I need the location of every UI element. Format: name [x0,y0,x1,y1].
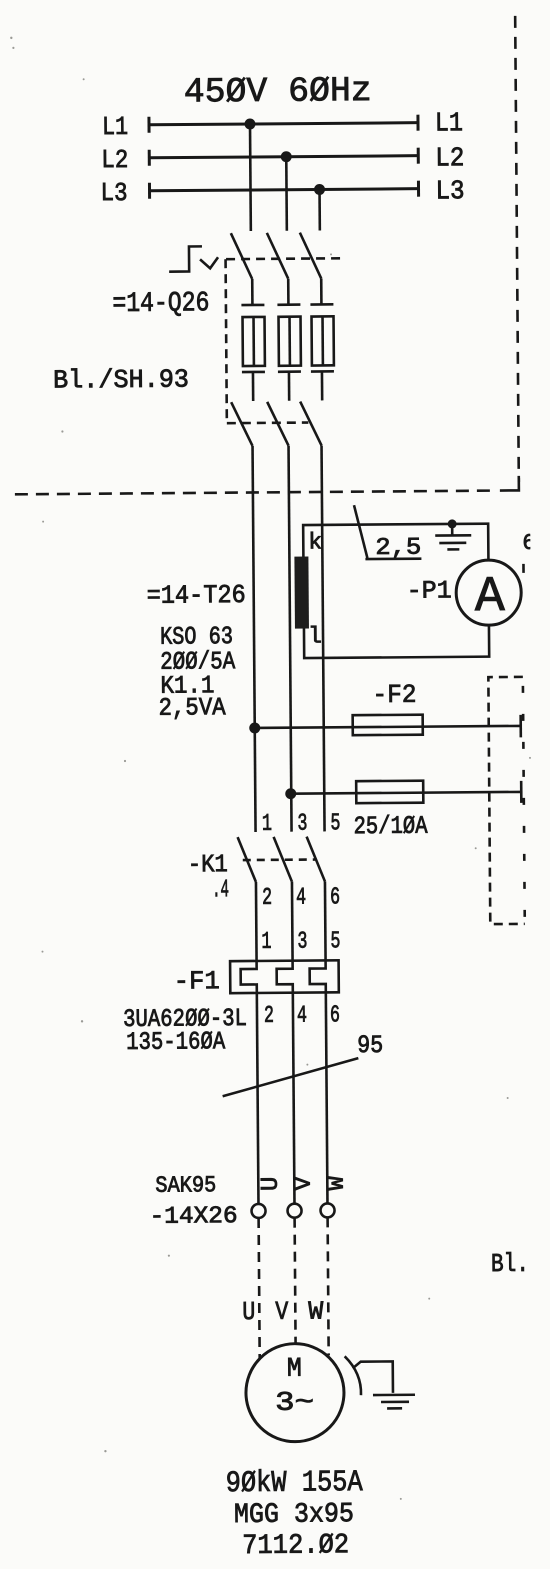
svg-text:L2: L2 [435,144,464,174]
wire phase3 mid [322,445,325,831]
wire phase1 F1 to terminal [257,993,259,1204]
terminal bar fuse wire [520,781,523,803]
junction dot phase1 / F2 wire [249,722,260,733]
ground symbol at P1 [435,524,471,550]
svg-text:-P1: -P1 [407,576,452,605]
svg-text:7112.Ø2: 7112.Ø2 [242,1530,349,1562]
svg-text:95: 95 [357,1031,383,1060]
svg-text:M: M [287,1355,302,1385]
svg-text:W: W [308,1296,324,1326]
wire phase3 F1 to terminal [326,992,328,1203]
junction dot phase2 / fuse wire [285,788,296,799]
svg-text:W: W [324,1175,351,1190]
svg-text:L1: L1 [435,109,463,139]
svg-text:3: 3 [297,929,307,956]
svg-text:2,5VA: 2,5VA [158,693,225,723]
wire phase1 mid [253,446,256,832]
dashed enclosure right of F2 [488,677,524,924]
heater element phase 3 [310,960,326,992]
svg-text:=14-T26: =14-T26 [147,580,246,611]
svg-text:=14-Q26: =14-Q26 [112,288,209,320]
svg-text:L3: L3 [100,178,127,208]
junction L3 [314,184,325,195]
breaker Q26 dashed enclosure [226,258,347,423]
breaker pole 2 upper blade [267,233,288,279]
svg-text:L3: L3 [435,177,464,207]
svg-text:45ØV 6ØHz: 45ØV 6ØHz [184,71,372,112]
terminal circle 1 [251,1204,265,1218]
heater element phase 2 [277,961,293,993]
overload relay F1 body [230,960,339,993]
breaker pole 1 upper blade [231,233,252,279]
svg-text:1: 1 [262,811,272,838]
svg-text:A: A [475,569,505,626]
contactor K1 blade 2 [274,837,292,882]
wire phase3 K1 to F1 [324,881,327,960]
svg-text:1: 1 [261,929,271,956]
partial glyph at scan edge [522,531,536,573]
fuse 25/10A [356,781,423,804]
svg-text:U: U [242,1297,255,1327]
svg-text:5: 5 [330,928,340,955]
svg-text:SAK95: SAK95 [155,1172,216,1198]
fuse link phase 3 [310,278,334,400]
breaker Q26 trip actuator symbol [169,246,202,271]
CT T26 core [294,557,309,629]
breaker pole 1 lower blade [231,402,252,446]
fuse link phase 1 [241,279,265,401]
breaker pole 3 upper blade [300,232,321,278]
wire phase2 top drop [285,157,288,231]
junction L2 [281,151,292,162]
svg-text:L1: L1 [102,112,128,142]
wire phase2 mid [289,446,292,832]
boundary dashed vertical right [515,16,519,482]
leader line for 2,5 [354,505,367,558]
svg-text:-F2: -F2 [372,680,416,710]
contactor K1 blade 3 [307,836,325,881]
wire phase1 top drop [249,124,252,231]
terminal circle 2 [287,1204,301,1218]
dashed motor feed U [259,1218,260,1358]
bus L2 [149,148,418,166]
dashed motor feed V [293,1218,297,1345]
svg-text:l: l [308,623,322,649]
fuse F2 [353,715,423,736]
bus L3 [149,181,418,199]
svg-text:5: 5 [330,810,340,837]
wire to F2 [255,726,521,728]
svg-text:6: 6 [330,884,340,911]
svg-text:V: V [275,1297,289,1327]
boundary dashed horizontal [15,491,495,495]
wire phase1 K1 to F1 [255,882,258,961]
svg-text:Bl.: Bl. [491,1249,529,1279]
breaker pole 2 lower blade [267,402,288,446]
svg-text:3~: 3~ [275,1389,314,1419]
svg-text:2: 2 [264,1003,274,1030]
CT T26 secondary loop [303,524,489,658]
bus L1 [149,115,418,133]
contactor K1 blade 1 [238,837,256,882]
motor ground arc [345,1356,361,1395]
junction L1 [244,118,255,129]
svg-text:9ØkW 155A: 9ØkW 155A [226,1466,363,1501]
wire to fuse 25/10A [291,792,521,794]
fuse link phase 2 [277,279,301,401]
svg-text:25/1ØA: 25/1ØA [353,812,427,842]
contactor K1 linkage [243,858,317,861]
ground junction dot [448,519,457,528]
dashed motor feed W [328,1217,329,1355]
ammeter P1 [456,560,522,626]
svg-text:k: k [308,529,322,555]
svg-text:6: 6 [330,1002,340,1029]
motor M circle [246,1343,345,1442]
svg-text:U: U [258,1177,285,1192]
svg-text:-14X26: -14X26 [149,1203,237,1231]
svg-text:MGG 3x95: MGG 3x95 [234,1499,354,1531]
terminal circle 3 [320,1203,334,1217]
boundary dashed corner [500,476,519,491]
leader line 95 [222,1058,358,1096]
svg-text:3: 3 [297,811,307,838]
breaker pole 3 lower blade [300,401,321,445]
terminal bar F2 wire [519,715,522,737]
svg-text:2: 2 [262,885,272,912]
svg-text:L2: L2 [101,145,128,175]
svg-text:.4: .4 [212,875,229,904]
motor ground wire [353,1361,393,1393]
svg-text:135-16ØA: 135-16ØA [126,1027,225,1057]
svg-text:-F1: -F1 [174,966,220,996]
wire phase3 top drop [318,189,321,230]
ground bars motor [373,1395,415,1409]
underline 2,5 [365,557,421,560]
wire phase2 F1 to terminal [293,993,295,1204]
wire phase2 K1 to F1 [291,882,294,961]
svg-text:4: 4 [296,885,306,912]
heater element phase 1 [241,961,257,993]
svg-text:Bl./SH.93: Bl./SH.93 [53,364,189,395]
svg-text:V: V [291,1176,318,1191]
svg-text:4: 4 [297,1003,307,1030]
